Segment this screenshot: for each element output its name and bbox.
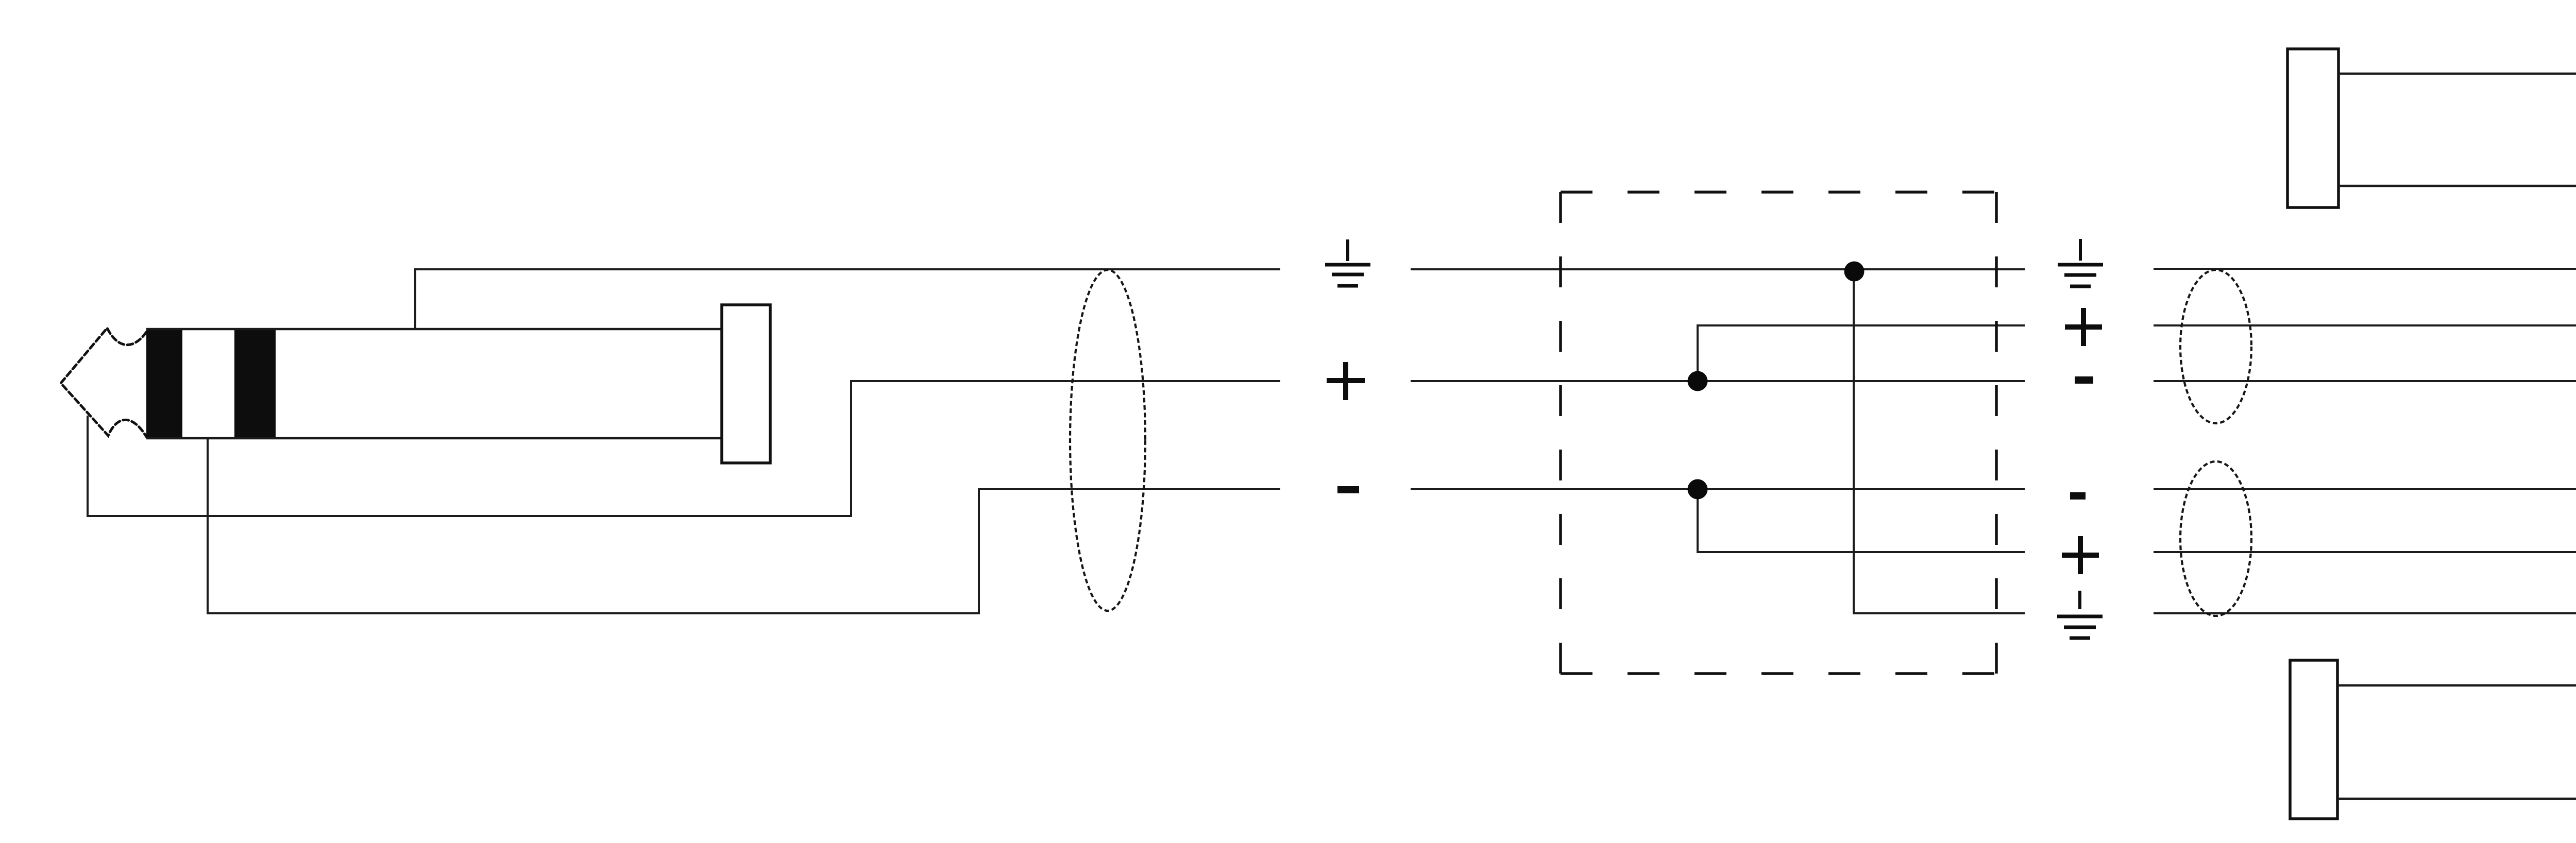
wire: P1 ring to minus row — [208, 439, 1280, 613]
dashed junction box — [1561, 192, 1996, 674]
wire: ground branch inside box down to lower ground row — [1854, 269, 2025, 613]
plus label left — [1327, 362, 1365, 400]
junction dot: minus node in box — [1688, 479, 1708, 500]
ground symbol left (net GND) — [1325, 239, 1370, 286]
TRS stereo plug P1 tip arrow — [61, 328, 146, 437]
TRS plug P1 collar — [722, 305, 770, 463]
junction dot: ground node in box — [1844, 262, 1865, 282]
wire: plus row mid segment — [1411, 380, 2025, 382]
TRS plug P1 sleeve barrel outline — [146, 329, 722, 438]
wire: upper minus row right segment with riser to upper jack tip — [2154, 168, 2576, 381]
TRS plug P1 tip contact (black band) — [146, 330, 182, 439]
wire: sleeve (ground) from P1 barrel top to ground row — [415, 269, 1280, 329]
junction dot: plus node in box — [1688, 371, 1708, 391]
minus label left — [1337, 486, 1359, 493]
minus label upper right — [2075, 376, 2093, 384]
cable ellipse lower right — [2180, 461, 2251, 616]
wire: lower ground row right segment to lower jack sleeve — [2154, 613, 2576, 685]
TS plug P2 barrel outline — [2338, 74, 2576, 186]
ground symbol lower right (net GND) — [2057, 591, 2103, 638]
TS plug P3 barrel outline — [2337, 685, 2576, 799]
wire: upper plus row right segment — [2154, 324, 2576, 326]
minus label lower right — [2070, 492, 2086, 500]
wire: ground row right segment to upper jack sleeve — [2154, 186, 2576, 269]
TRS plug P1 ring contact (black band) — [234, 330, 276, 439]
cable ellipse upper right — [2180, 270, 2251, 423]
wire: lower plus branch inside box — [1698, 489, 2025, 552]
plus label lower right — [2062, 536, 2099, 574]
ground symbol upper right (net GND) — [2058, 239, 2103, 286]
wire: ground row mid segment through dashed box — [1411, 268, 2025, 270]
plus label upper right — [2065, 308, 2102, 346]
TS mono plug P2 (upper) collar — [2287, 49, 2338, 208]
wire: P1 tip to plus row — [88, 381, 1280, 516]
wire: lower minus row right segment with riser to lower jack tip — [2154, 489, 2576, 702]
cable ellipse left — [1070, 270, 1145, 611]
wire: lower plus row right segment — [2154, 551, 2576, 553]
wire: upper plus branch inside box — [1698, 325, 2025, 381]
wire: minus row mid segment — [1411, 488, 2025, 490]
TS mono plug P3 (lower) collar — [2290, 660, 2337, 819]
